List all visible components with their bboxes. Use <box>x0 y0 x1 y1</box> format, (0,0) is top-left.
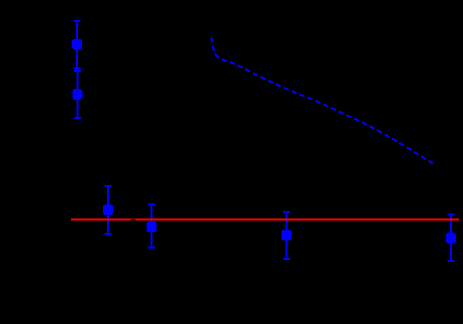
marker P1 <box>72 39 82 50</box>
red fit line <box>71 219 459 221</box>
errorbar point P5 <box>283 212 290 259</box>
marker P4 <box>147 222 157 233</box>
blue dashed theory curve <box>211 37 433 163</box>
errorbar point P1 <box>74 21 81 69</box>
marker P5 <box>282 230 292 241</box>
black occluder notch over fit line <box>131 220 135 222</box>
marker P2 <box>72 89 82 100</box>
marker P3 <box>103 205 113 216</box>
errorbar point P4 <box>148 205 155 248</box>
errorbar point P6 <box>447 215 454 262</box>
marker P6 <box>446 233 456 244</box>
errorbar point P2 <box>74 71 81 118</box>
errorbar point P3 <box>105 186 112 234</box>
